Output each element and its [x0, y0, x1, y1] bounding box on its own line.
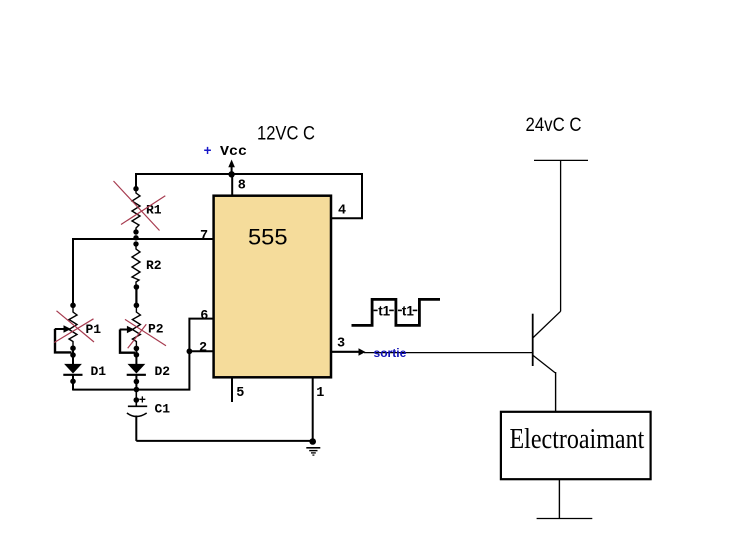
electromagnet box [501, 412, 651, 479]
wire pin6 branch [189, 319, 213, 352]
svg-text:8: 8 [238, 179, 246, 194]
svg-text:P1: P1 [86, 322, 102, 337]
svg-text:R2: R2 [146, 258, 162, 273]
wire P1 wiper loop [55, 329, 72, 352]
svg-text:6: 6 [200, 309, 208, 324]
svg-text:1: 1 [316, 386, 324, 401]
svg-text:P2: P2 [148, 322, 164, 337]
junction dot P1 top [70, 303, 76, 309]
red cross over P1 [54, 311, 94, 343]
junction dot C1 top [134, 397, 140, 403]
junction dot R2 bottom [134, 284, 140, 290]
junction dots P1 bottom [70, 345, 76, 357]
ground [306, 448, 320, 455]
wire P2 wiper loop [120, 330, 135, 353]
lower supply bar [537, 518, 593, 520]
transistor Q1 [533, 311, 561, 373]
junction R1 top dot [133, 186, 138, 191]
wire left branch vertical [72, 238, 74, 305]
diode D1 [63, 364, 82, 391]
junction dot ground node [309, 438, 316, 445]
resistor R2 [132, 244, 140, 287]
junction dot P2 top [134, 303, 140, 309]
svg-text:t1: t1 [402, 303, 414, 318]
t1 tick marks first [374, 309, 394, 311]
Vcc arrow [228, 160, 235, 175]
junction dots R1 bottom [133, 229, 138, 246]
wire P2 to D2 [135, 347, 137, 365]
IC 555 body U1 [214, 196, 331, 378]
svg-text:Electroaimant: Electroaimant [510, 423, 645, 455]
wire R2 to P2 [135, 287, 137, 306]
svg-text:2: 2 [199, 341, 207, 356]
wire output to transistor base [364, 352, 533, 354]
24V supply bar [534, 159, 588, 161]
junction dots P2 bottom [134, 346, 140, 358]
t1 tick marks second [398, 309, 417, 311]
wire load to lower bar [558, 479, 560, 518]
wire ground rail [136, 440, 312, 442]
potentiometer P2 [120, 305, 141, 347]
junction dot pin2 node [187, 348, 193, 354]
svg-text:R1: R1 [146, 203, 162, 218]
svg-text:5: 5 [236, 386, 244, 401]
wire P1 to D1 [72, 347, 74, 365]
svg-text:3: 3 [337, 336, 345, 351]
wire pin5 stub [231, 377, 233, 402]
svg-text:7: 7 [200, 229, 208, 244]
svg-text:Vcc: Vcc [220, 145, 247, 160]
svg-text:t1: t1 [378, 303, 390, 318]
wire pin7 rail [73, 238, 214, 240]
output arrow [359, 348, 366, 356]
waveform t1 square wave [352, 299, 441, 325]
svg-text:4: 4 [338, 203, 346, 218]
svg-text:555: 555 [248, 224, 288, 249]
resistor R1 [132, 189, 140, 232]
wire R1 top drop [135, 173, 137, 189]
svg-text:+: + [139, 394, 146, 408]
red cross over R1 [114, 181, 166, 231]
diode D2 [127, 364, 146, 391]
wire emitter to load [555, 372, 557, 412]
wire C1 lead [135, 390, 137, 406]
wire 24V to collector [560, 160, 562, 311]
wire pin4 branch [331, 173, 362, 218]
svg-text:D2: D2 [155, 364, 171, 379]
svg-text:12VC C: 12VC C [257, 123, 315, 145]
svg-text:sortie: sortie [374, 348, 407, 360]
red cross over P2 [125, 319, 166, 348]
svg-text:C1: C1 [155, 401, 171, 416]
svg-text:+: + [204, 145, 212, 160]
junction dots D2 bottom [134, 379, 140, 393]
junction dot D1 bottom [70, 379, 76, 385]
wire pin2 stub [189, 350, 213, 352]
potentiometer P1 [55, 305, 77, 347]
wire pin8 stub [231, 174, 233, 196]
capacitor C1 [127, 394, 147, 441]
svg-text:24vC C: 24vC C [526, 115, 582, 136]
junction Vcc node dot [228, 171, 234, 177]
svg-text:D1: D1 [91, 364, 107, 379]
node Vcc label [204, 145, 248, 160]
wire bottom node rail to pin2 branch [73, 351, 189, 389]
wire top rail [135, 173, 363, 175]
wire pin3 stub [331, 351, 359, 353]
wire pin1 stub [312, 377, 314, 441]
